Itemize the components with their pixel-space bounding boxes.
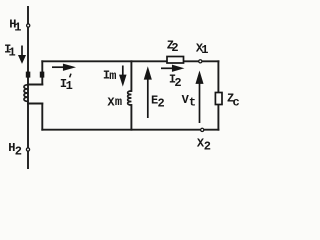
svg-text:1: 1 <box>9 45 16 59</box>
svg-text:c: c <box>233 96 240 110</box>
svg-text:m: m <box>109 69 116 83</box>
svg-text:2: 2 <box>15 144 22 158</box>
svg-text:2: 2 <box>171 41 178 55</box>
svg-text:1: 1 <box>66 79 73 93</box>
svg-text:t: t <box>189 95 196 109</box>
svg-text:1: 1 <box>201 43 208 57</box>
svg-text:1: 1 <box>14 21 21 35</box>
svg-text:2: 2 <box>158 97 165 111</box>
svg-text:m: m <box>115 95 122 109</box>
svg-text:2: 2 <box>174 76 181 90</box>
svg-text:2: 2 <box>204 139 211 153</box>
